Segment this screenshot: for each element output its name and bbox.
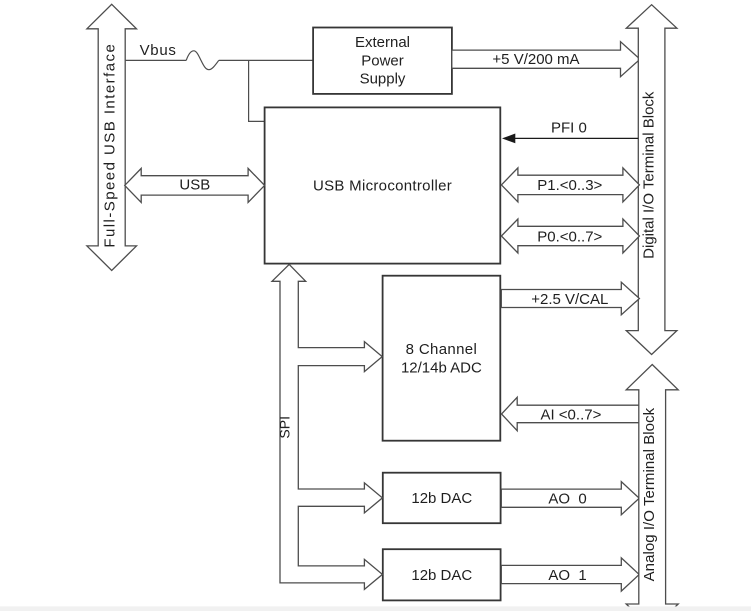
- svg-text:USB Microcontroller: USB Microcontroller: [313, 178, 452, 195]
- svg-text:Full-Speed USB Interface: Full-Speed USB Interface: [101, 43, 118, 248]
- wire Vbus: [126, 42, 314, 70]
- svg-text:Power: Power: [361, 52, 404, 69]
- P1.<0..3> double arrow: [501, 168, 639, 202]
- 12b DAC box 2: [383, 549, 501, 600]
- AI <0..7> arrow: [502, 397, 640, 430]
- Digital I/O Terminal Block arrow: [626, 5, 677, 355]
- P0.<0..7> double arrow: [501, 219, 639, 253]
- +5 V/200 mA arrow: [452, 42, 640, 77]
- 12b DAC box 1: [383, 473, 501, 524]
- svg-text:12/14b ADC: 12/14b ADC: [401, 359, 482, 376]
- USB double arrow: [125, 168, 265, 202]
- svg-text:SPI: SPI: [277, 416, 293, 439]
- svg-text:AI <0..7>: AI <0..7>: [540, 407, 601, 424]
- Analog I/O Terminal Block arrow: [626, 365, 678, 611]
- AO 0 arrow: [501, 482, 639, 515]
- svg-text:Vbus: Vbus: [140, 42, 177, 59]
- svg-text:Digital I/O Terminal Block: Digital I/O Terminal Block: [641, 91, 658, 259]
- svg-text:PFI 0: PFI 0: [551, 119, 587, 136]
- svg-text:12b DAC: 12b DAC: [411, 490, 472, 507]
- svg-text:+5 V/200 mA: +5 V/200 mA: [492, 51, 579, 68]
- Full-Speed USB Interface arrow: [87, 4, 137, 270]
- svg-text:Analog I/O Terminal Block: Analog I/O Terminal Block: [641, 407, 658, 581]
- svg-text:12b DAC: 12b DAC: [411, 567, 472, 584]
- AO 1 arrow: [501, 558, 639, 591]
- wire PFI 0: [502, 119, 638, 143]
- svg-text:Supply: Supply: [360, 71, 406, 88]
- USB Microcontroller box U1: [265, 107, 501, 263]
- bottom gray strip: [0, 606, 751, 611]
- External Power Supply box: [313, 28, 452, 94]
- svg-text:USB: USB: [179, 177, 210, 194]
- 8 Channel 12/14b ADC box: [383, 276, 501, 441]
- +2.5 V/CAL arrow: [501, 282, 639, 315]
- svg-text:P0.<0..7>: P0.<0..7>: [537, 228, 602, 245]
- svg-text:P1.<0..3>: P1.<0..3>: [537, 177, 602, 194]
- svg-text:External: External: [355, 34, 410, 51]
- svg-text:8 Channel: 8 Channel: [406, 341, 478, 358]
- SPI bus: [272, 264, 382, 589]
- svg-text:AO 0: AO 0: [548, 491, 586, 508]
- svg-text:+2.5 V/CAL: +2.5 V/CAL: [531, 291, 608, 308]
- wire Vbus-to-microcontroller branch: [249, 60, 266, 121]
- svg-text:AO 1: AO 1: [548, 567, 586, 584]
